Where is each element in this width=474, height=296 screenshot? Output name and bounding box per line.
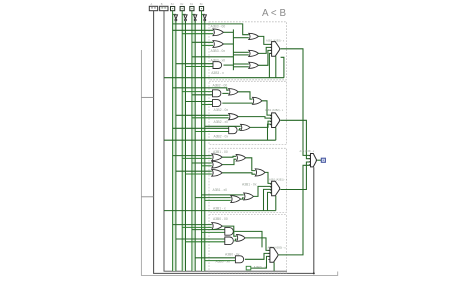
- svg-text:A3B1 - 00: A3B1 - 00: [213, 150, 228, 154]
- and gate U3: [213, 62, 222, 69]
- svg-text:B0: B0: [200, 3, 204, 6]
- wire M3 out to M4: [241, 198, 244, 199]
- wire NOT-B0 column: [204, 21, 206, 271]
- wire G4 bottom riser: [273, 262, 275, 271]
- svg-text:A3B3 - 0x: A3B3 - 0x: [211, 49, 226, 53]
- dashed block S2: [209, 81, 287, 144]
- wire riser to G3 in3: [264, 189, 272, 210]
- input pin B3: [171, 7, 175, 11]
- wire block1 bottom feeder: [164, 77, 284, 79]
- xnor gate U10: [212, 223, 223, 230]
- feeder wires gate U7: [173, 155, 212, 157]
- and gate M2 block4: [235, 256, 243, 263]
- wire B2 column: [181, 11, 183, 271]
- svg-text:A3B3 - 00: A3B3 - 00: [211, 24, 226, 28]
- svg-text:A3B0 - x: A3B0 - x: [254, 266, 267, 270]
- xnor gate U8: [212, 161, 223, 168]
- wire tap stub node N2: [141, 196, 153, 198]
- svg-text:A3B2 - 0x: A3B2 - 0x: [214, 108, 229, 112]
- wire block3 bottom feeder: [164, 210, 276, 212]
- svg-text:A: A: [151, 2, 153, 6]
- svg-text:A3B2 - 00: A3B2 - 00: [213, 83, 228, 87]
- input pin B0: [199, 7, 203, 11]
- feeder wires gate M2 block2: [176, 114, 229, 116]
- svg-text:B3: B3: [171, 3, 175, 6]
- and gate U12: [225, 237, 234, 245]
- and gate U6: [229, 126, 237, 133]
- wire block3 output to final gate: [280, 162, 310, 190]
- xnor gate U2: [213, 41, 224, 48]
- svg-text:B2: B2: [180, 3, 184, 6]
- wire U17 output: [317, 159, 321, 161]
- or gate M3 block2: [241, 124, 251, 130]
- svg-text:A3B2 - 0x: A3B2 - 0x: [214, 135, 229, 139]
- or gate M3 block3: [231, 196, 241, 203]
- wire M2 out to G4 in2: [245, 253, 270, 259]
- wire branch to inverter B1: [192, 14, 195, 16]
- wire U11 out riser: [234, 231, 262, 247]
- wire block4 output to final gate: [279, 165, 311, 255]
- wire M3 out to G2 in3: [250, 121, 272, 127]
- wire branch to inverter B0: [202, 14, 205, 16]
- feeder wires gate U2: [192, 41, 213, 43]
- wire block2 bottom feeder: [164, 139, 276, 141]
- feeder wires gate M2 block4: [195, 257, 235, 259]
- wire U3 output: [224, 64, 234, 66]
- feeder wire top block1: [173, 24, 249, 35]
- wire riser block1: [232, 29, 234, 70]
- wire U1 output to riser: [224, 31, 234, 33]
- wire B3 column: [172, 11, 174, 271]
- or gate M2 block1: [249, 50, 259, 56]
- junction bus A bottom corner: [313, 272, 315, 274]
- or gate M1b block2: [253, 97, 263, 104]
- wire B0 column: [201, 11, 203, 271]
- feeder wires gate U12: [176, 238, 225, 240]
- or gate M1 block2: [229, 89, 239, 95]
- wire block2 output to final gate: [280, 120, 310, 158]
- big and gate G2: [272, 113, 280, 128]
- output pin A&lt;B: [321, 158, 325, 162]
- wire square out to G4 in3: [251, 256, 270, 268]
- wire M1 out to G4 in1: [245, 238, 270, 251]
- wire M3 out to G1 in3: [259, 50, 272, 65]
- wire bottom feeder riser to G1 in4: [269, 53, 271, 77]
- wire U6 out to M3 in2: [238, 129, 240, 130]
- wire U7 out to M1 block3: [222, 155, 236, 158]
- feeder wires gate U11: [192, 229, 225, 231]
- feeder wires gate U6: [173, 127, 229, 129]
- wire bus B: down left side, along bottom: [164, 11, 287, 271]
- wire NOT-B2 column: [185, 21, 187, 271]
- wire NOT-B1 column: [194, 21, 196, 271]
- input pin B1: [190, 7, 194, 11]
- or gate M2 block3: [255, 169, 265, 176]
- wire M2 out to G2 in2: [238, 117, 271, 119]
- feeder wire M3 in1 block2: [205, 125, 241, 127]
- wire riser to G3 in4: [268, 192, 272, 210]
- wire bottom riser to G2 in4: [268, 124, 272, 140]
- inverter NOT-B3: [174, 15, 177, 19]
- wire bus A: down left side, along bottom, up to gate U17: [154, 11, 314, 274]
- feeder wires gate U8: [192, 162, 212, 164]
- feeder wires gate U10: [173, 224, 212, 226]
- wire right riser stub block1: [281, 57, 284, 77]
- wire riser to M1: [233, 37, 248, 39]
- dashed block S1: [209, 148, 287, 212]
- svg-text:A3B1 - 0x: A3B1 - 0x: [242, 182, 257, 186]
- crosser wire block1: [192, 56, 234, 58]
- or gate M1 block4: [237, 235, 246, 242]
- and gate U4: [213, 90, 221, 97]
- wire B1 column: [191, 11, 193, 271]
- wire M2 out to G3 in1: [265, 172, 272, 183]
- and gate U5: [213, 100, 221, 107]
- or gate M1 block3: [236, 155, 246, 162]
- input pin A (4-bit): [149, 6, 157, 10]
- xnor gate U9: [212, 169, 223, 176]
- wire U12 out to M1 block4: [234, 239, 236, 241]
- or gate M1 block1: [249, 33, 259, 39]
- svg-text:A3B2 - x0: A3B2 - x0: [214, 120, 229, 124]
- inverter NOT-B0: [203, 15, 206, 19]
- wire U2 output: [224, 43, 234, 45]
- wire U9 out to M2 block3: [222, 173, 255, 174]
- wire U8 out to M1 block3: [222, 159, 236, 164]
- feeder wires gate M3 block3: [195, 197, 231, 199]
- xnor gate U7: [212, 154, 223, 161]
- svg-text:A3B2 (A3B2) - x: A3B2 (A3B2) - x: [265, 109, 284, 112]
- wire NOT-B3 column: [175, 21, 177, 271]
- and gate U11: [225, 228, 234, 236]
- wire M4 out to G3 in2: [254, 186, 272, 196]
- wire M2 out to G1 in2: [259, 47, 272, 53]
- constant square block4: [246, 266, 251, 270]
- pale halo column pair B2: [182, 13, 186, 271]
- input pin B (4-bit): [160, 6, 168, 10]
- pale halo column pair B0: [201, 13, 205, 271]
- wire U5 out to M1b: [222, 102, 252, 104]
- feeder wire top block2: [173, 88, 229, 90]
- dashed block S3: [209, 22, 287, 80]
- feeder wires gate U9: [176, 170, 212, 172]
- svg-text:A<B (A=B) - x: A<B (A=B) - x: [300, 150, 316, 153]
- feeder wires gate U4: [182, 91, 212, 93]
- wire G3 bottom riser: [275, 196, 277, 211]
- or gate M2 block2: [229, 114, 239, 120]
- wire branch to inverter B2: [182, 14, 185, 16]
- wire M1 out to M2 block3: [246, 158, 256, 171]
- wire G1 bottom riser: [275, 56, 277, 77]
- big and gate G3: [272, 181, 280, 196]
- pale halo column pair B1: [192, 13, 196, 271]
- svg-text:A3B1 - x0: A3B1 - x0: [213, 188, 228, 192]
- wire U4 out to M1 in2: [222, 92, 228, 94]
- wire M1b out to G2 in1: [262, 101, 272, 115]
- big and gate G4: [270, 248, 278, 263]
- svg-text:B: B: [161, 2, 163, 6]
- wire outer boundary left/bottom: [141, 50, 337, 275]
- svg-text:A3B0 - 00: A3B0 - 00: [213, 217, 228, 221]
- final or gate U17: [311, 154, 317, 167]
- big and gate G1: [272, 42, 280, 57]
- feeder wires gate L1 block1: [173, 29, 213, 31]
- or gate M3 block1: [249, 62, 259, 68]
- svg-text:A < B: A < B: [262, 8, 286, 19]
- pale halo column pair B3: [172, 13, 176, 271]
- wire G2 bottom riser: [275, 128, 277, 141]
- dashed block S0: [209, 215, 287, 273]
- wire branch to inverter B3: [173, 14, 176, 16]
- wire riser to M3 inputs: [233, 63, 248, 65]
- svg-text:A3B3 - x: A3B3 - x: [211, 71, 224, 75]
- inverter NOT-B2: [184, 15, 187, 19]
- wire M1 out to M1b: [238, 92, 252, 99]
- input pin B2: [180, 7, 184, 11]
- wire riser to M2 inputs: [233, 51, 248, 53]
- wire M1 out to G1 in1: [259, 36, 272, 44]
- inverter NOT-B1: [194, 15, 197, 19]
- svg-text:B1: B1: [190, 3, 194, 6]
- wire U10 out to M1 block4: [222, 226, 236, 236]
- feeder wires gate U3: [176, 63, 213, 65]
- wire block1 output to final gate: [280, 49, 310, 156]
- wire tap stub node N1: [141, 96, 153, 98]
- or gate M4 block3: [244, 193, 254, 200]
- feeder wires gate U5: [186, 101, 213, 103]
- feeder wire M4 in1 block3: [202, 194, 244, 196]
- xnor gate U1: [213, 29, 224, 36]
